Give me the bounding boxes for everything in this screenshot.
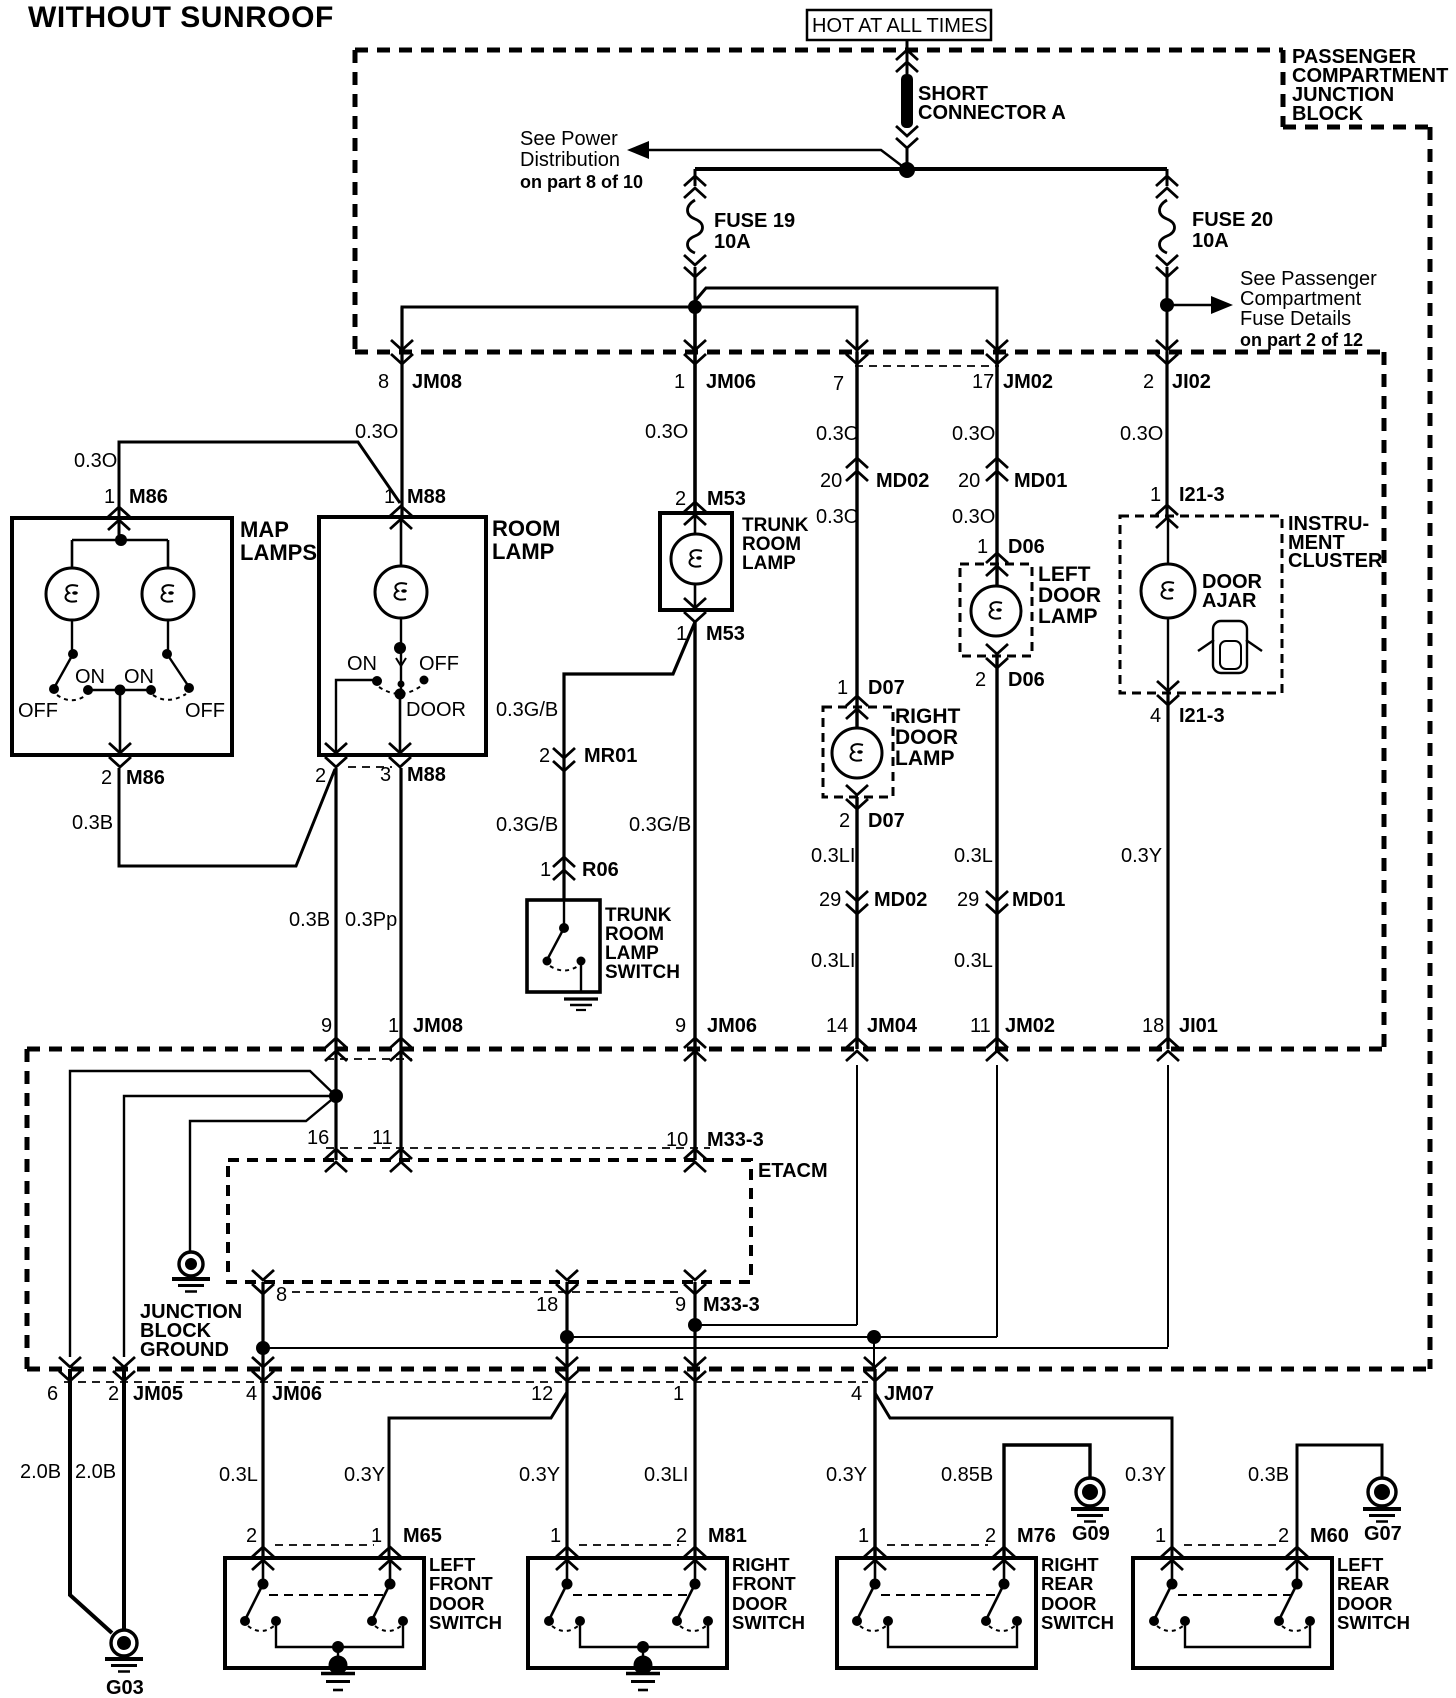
label RIGHT FRONT DOOR SWITCH <box>732 1554 805 1633</box>
rail ground stem <box>626 1641 660 1690</box>
wire node to JM05 pin 2 <box>124 1096 336 1357</box>
svg-text:DOOR: DOOR <box>1041 1593 1097 1614</box>
ground G09 <box>1071 1478 1110 1545</box>
svg-text:LEFT: LEFT <box>1038 563 1091 586</box>
svg-text:REAR: REAR <box>1337 1573 1389 1594</box>
svg-text:0.3B: 0.3B <box>72 812 113 834</box>
svg-text:ON: ON <box>124 666 154 688</box>
connector R06 pin 1 <box>540 857 619 881</box>
svg-text:MD02: MD02 <box>874 889 927 911</box>
connector I21-3 pin 4 <box>1150 681 1225 727</box>
svg-text:M88: M88 <box>407 764 446 786</box>
svg-text:LAMP: LAMP <box>895 747 955 770</box>
map lamp right switch <box>146 620 194 700</box>
svg-text:10A: 10A <box>714 231 751 253</box>
svg-text:12: 12 <box>531 1383 553 1405</box>
svg-text:2: 2 <box>975 669 986 691</box>
wire fuse 20 output to node <box>1166 267 1169 305</box>
svg-text:on part 8 of 10: on part 8 of 10 <box>520 172 643 192</box>
svg-text:1: 1 <box>540 859 551 881</box>
svg-text:Fuse Details: Fuse Details <box>1240 308 1351 330</box>
svg-text:1: 1 <box>371 1525 382 1547</box>
wire D07 pin2 to MD02 29 <box>855 797 858 1049</box>
svg-text:1: 1 <box>388 1015 399 1037</box>
junction node below fuse 19 <box>688 300 702 314</box>
map lamp bulb right <box>142 568 194 620</box>
svg-text:DOOR: DOOR <box>406 699 466 721</box>
svg-text:9: 9 <box>321 1015 332 1037</box>
svg-text:0.3Y: 0.3Y <box>519 1464 560 1486</box>
connector pin 1 junction block bottom <box>673 1357 706 1405</box>
svg-text:JM04: JM04 <box>867 1015 918 1037</box>
svg-text:2: 2 <box>315 765 326 787</box>
wire right rear door switch pin 2 to ground G09 <box>1004 1445 1090 1558</box>
wire pin9 node to JM04 pin 14 <box>695 1324 857 1326</box>
svg-text:20: 20 <box>958 470 980 492</box>
svg-text:RIGHT: RIGHT <box>1041 1554 1099 1575</box>
connector JM08 pin 8 <box>378 340 462 393</box>
svg-text:Distribution: Distribution <box>520 149 620 171</box>
mechanical link dashes <box>1178 1594 1291 1596</box>
wire pin8 node to JI01 <box>263 1347 1168 1349</box>
svg-text:D06: D06 <box>1008 536 1045 558</box>
svg-text:D07: D07 <box>868 810 905 832</box>
wire node to connector JM08 pin 8 <box>402 307 695 517</box>
svg-text:0.3LI: 0.3LI <box>811 845 855 867</box>
wire branch to MAP LAMPS connector M86 pin 1 <box>119 442 400 540</box>
switch unit right <box>672 1558 713 1631</box>
wire connector 12 to right front door switch pin 1 <box>566 1369 569 1558</box>
connector M86 pin 2 <box>101 743 165 789</box>
svg-text:0.85B: 0.85B <box>941 1464 993 1486</box>
svg-text:0.3Y: 0.3Y <box>826 1464 867 1486</box>
svg-text:1: 1 <box>384 486 395 508</box>
wire JM07 pin 4 from node <box>873 1337 875 1369</box>
connector housing dashes <box>1184 1544 1281 1546</box>
junction node map lamps output <box>115 685 126 696</box>
svg-text:2: 2 <box>539 745 550 767</box>
connector housing dashes M33-3 top <box>326 1147 710 1149</box>
TRUNK ROOM LAMP SWITCH box <box>527 900 600 992</box>
label PASSENGER COMPARTMENT JUNCTION BLOCK <box>1292 46 1448 125</box>
label MAP LAMPS <box>240 517 317 565</box>
wire node to JM05 pin 6 <box>70 1071 336 1357</box>
svg-text:JI02: JI02 <box>1172 371 1211 393</box>
wire JI01 pin 18 link down <box>1167 1065 1169 1347</box>
svg-text:ON: ON <box>347 653 377 675</box>
svg-text:JM02: JM02 <box>1005 1015 1055 1037</box>
connector pin 6 junction block bottom <box>47 1357 81 1405</box>
wire main bus from short connector A to fuses <box>695 167 1167 171</box>
wire ETACM pin 9 down to connector 1 <box>693 1282 696 1558</box>
connector JM06 pin 9 into junction block <box>675 1015 757 1061</box>
svg-text:1: 1 <box>1150 484 1161 506</box>
svg-text:2: 2 <box>1278 1525 1289 1547</box>
connector M60 pin 2 <box>1278 1525 1349 1570</box>
svg-text:MAP: MAP <box>240 517 289 542</box>
svg-text:1: 1 <box>673 1383 684 1405</box>
svg-text:REAR: REAR <box>1041 1573 1093 1594</box>
svg-text:M60: M60 <box>1310 1525 1349 1547</box>
wire fuse 20 feed <box>1166 169 1169 186</box>
label HOT AT ALL TIMES <box>807 10 991 40</box>
svg-text:2: 2 <box>246 1525 257 1547</box>
svg-text:4: 4 <box>851 1383 862 1405</box>
svg-text:8: 8 <box>378 371 389 393</box>
ETACM pin 18 <box>536 1270 578 1316</box>
svg-text:DOOR: DOOR <box>732 1593 788 1614</box>
switch unit left <box>240 1558 281 1631</box>
connector D06 pin 2 <box>975 644 1045 691</box>
wire room pin 2 down to junction block pin 9 <box>334 768 337 1160</box>
connector JM08 pin 9 into junction block <box>321 1015 347 1061</box>
wire fuse 20 node to connector JI02 pin 2 <box>1166 305 1169 352</box>
connector M86 pin 1 <box>104 486 168 530</box>
svg-text:WITHOUT SUNROOF: WITHOUT SUNROOF <box>28 1 334 34</box>
connector housing dashes <box>887 1544 988 1546</box>
door ajar lamp bulb <box>1167 516 1169 693</box>
svg-text:1: 1 <box>837 677 848 699</box>
svg-text:1: 1 <box>858 1525 869 1547</box>
svg-text:4: 4 <box>1150 705 1161 727</box>
map lamp left switch <box>49 620 93 700</box>
wire pin18 node to JM02 pin 11 <box>567 1336 997 1338</box>
connector housing dashes junction block bottom <box>64 1381 868 1383</box>
svg-text:LAMPS: LAMPS <box>240 540 317 565</box>
label RIGHT REAR DOOR SWITCH <box>1041 1554 1114 1633</box>
LEFT DOOR LAMP dashed box <box>960 564 1032 656</box>
svg-text:JM08: JM08 <box>412 371 462 393</box>
svg-text:FUSE 19: FUSE 19 <box>714 210 795 232</box>
connector JI01 pin 18 into junction block <box>1142 1015 1218 1061</box>
svg-text:10A: 10A <box>1192 230 1229 252</box>
svg-text:11: 11 <box>970 1015 991 1037</box>
svg-text:0.3Y: 0.3Y <box>344 1464 385 1486</box>
label LEFT DOOR LAMP <box>1038 563 1101 628</box>
label FUSE 19 10A <box>714 210 795 253</box>
svg-text:2.0B: 2.0B <box>75 1461 116 1483</box>
svg-text:MD01: MD01 <box>1012 889 1065 911</box>
TRUNK ROOM LAMP box <box>660 513 732 610</box>
svg-text:11: 11 <box>372 1127 393 1149</box>
label TRUNK ROOM LAMP SWITCH <box>605 905 680 983</box>
connector JM02 pin 17 <box>972 340 1053 393</box>
svg-text:M53: M53 <box>707 488 746 510</box>
svg-text:ROOM: ROOM <box>605 924 664 945</box>
svg-text:4: 4 <box>246 1383 257 1405</box>
svg-text:0.3Pp: 0.3Pp <box>345 909 397 931</box>
svg-text:1: 1 <box>674 371 685 393</box>
wire pin7 to MD02 20 <box>855 352 858 727</box>
svg-text:M88: M88 <box>407 486 446 508</box>
ETACM dashed box <box>228 1160 751 1282</box>
svg-text:JM08: JM08 <box>413 1015 463 1037</box>
svg-text:OFF: OFF <box>419 653 459 675</box>
label FUSE 20 10A <box>1192 209 1273 252</box>
svg-text:JM07: JM07 <box>884 1383 934 1405</box>
svg-text:1: 1 <box>977 536 988 558</box>
svg-text:GROUND: GROUND <box>140 1339 229 1361</box>
svg-text:7: 7 <box>833 373 844 395</box>
svg-text:0.3O: 0.3O <box>952 506 995 528</box>
wire JM06 pin 1 to trunk room lamp M53 pin 2 <box>693 352 697 513</box>
junction node at short connector A <box>899 162 915 178</box>
connector MD02 pin 29 <box>819 889 927 914</box>
svg-text:M53: M53 <box>706 623 745 645</box>
svg-text:D07: D07 <box>868 677 905 699</box>
switch unit right <box>367 1558 408 1631</box>
svg-text:OFF: OFF <box>18 700 58 722</box>
svg-text:0.3O: 0.3O <box>816 423 859 445</box>
svg-text:0.3G/B: 0.3G/B <box>496 699 558 721</box>
svg-text:0.3LI: 0.3LI <box>644 1464 688 1486</box>
svg-text:I21-3: I21-3 <box>1179 705 1225 727</box>
svg-text:JM06: JM06 <box>706 371 756 393</box>
ETACM pin 9 M33-3 <box>675 1270 760 1316</box>
wire left rear door switch pin 2 to ground G07 <box>1297 1445 1382 1558</box>
svg-text:0.3L: 0.3L <box>954 950 993 972</box>
label TRUNK ROOM LAMP <box>742 515 809 574</box>
connector MR01 pin 2 <box>539 745 637 771</box>
wire JM05 pin 2 to ground G03 <box>122 1369 126 1630</box>
wire ETACM pin 18 down to connector 12 <box>565 1282 568 1558</box>
trunk room lamp bulb <box>694 513 697 610</box>
svg-text:2: 2 <box>985 1525 996 1547</box>
common rail wire <box>580 1622 708 1647</box>
connector housing dashes <box>579 1544 679 1546</box>
svg-text:TRUNK: TRUNK <box>605 905 672 926</box>
connector I21-3 pin 1 <box>1150 484 1225 528</box>
ROOM LAMP box <box>319 517 486 755</box>
map lamps output wire <box>88 690 151 755</box>
connector JM02 pin 11 into junction block <box>970 1015 1055 1061</box>
connector M76 pin 2 <box>985 1525 1056 1570</box>
svg-text:LAMP: LAMP <box>742 553 796 574</box>
connector JM04 pin 14 into junction block <box>826 1015 918 1061</box>
svg-text:MD01: MD01 <box>1014 470 1067 492</box>
connector D07 pin 1 <box>837 677 905 719</box>
svg-text:SWITCH: SWITCH <box>732 1612 805 1633</box>
ETACM connector M33-3 pin 11 <box>372 1127 412 1172</box>
RIGHT DOOR LAMP dashed box <box>823 707 893 797</box>
wire node to connector JM06 pin 1 <box>693 307 697 352</box>
svg-text:CLUSTER: CLUSTER <box>1288 550 1383 572</box>
svg-text:JM06: JM06 <box>272 1383 322 1405</box>
common rail wire <box>1185 1622 1310 1647</box>
svg-text:Compartment: Compartment <box>1240 288 1362 310</box>
svg-text:16: 16 <box>307 1127 329 1149</box>
svg-text:CONNECTOR A: CONNECTOR A <box>918 102 1066 124</box>
ETACM connector M33-3 pin 16 <box>307 1127 347 1172</box>
svg-text:20: 20 <box>820 470 842 492</box>
wire room pin 3 down to junction block JM08 pin 1 <box>399 768 402 1160</box>
switch unit right <box>1274 1558 1315 1631</box>
label SHORT CONNECTOR A <box>918 83 1066 124</box>
svg-text:DOOR: DOOR <box>895 726 958 749</box>
svg-text:R06: R06 <box>582 859 619 881</box>
room lamp ON-contact wire to pin 2 <box>336 680 377 755</box>
svg-text:DOOR: DOOR <box>1038 584 1101 607</box>
label See Passenger Compartment Fuse Details on part 2 of 12 <box>1240 268 1377 350</box>
wire JM07 branch to left rear door switch pin 1 <box>875 1393 1172 1558</box>
connector housing dashes <box>275 1544 374 1546</box>
svg-text:0.3L: 0.3L <box>219 1464 258 1486</box>
LEFT REAR DOOR SWITCH box <box>1133 1558 1332 1668</box>
svg-text:JI01: JI01 <box>1179 1015 1218 1037</box>
svg-text:TRUNK: TRUNK <box>742 515 809 536</box>
trunk room lamp switch contacts <box>543 900 586 992</box>
ground G07 <box>1363 1478 1402 1545</box>
svg-text:RIGHT: RIGHT <box>895 705 961 728</box>
label JUNCTION BLOCK GROUND <box>140 1301 242 1361</box>
wire ETACM pin 8 down to JM06 pin 4 <box>261 1282 264 1558</box>
connector housing dashes M33-3 bottom <box>292 1291 683 1293</box>
svg-text:DOOR: DOOR <box>429 1593 485 1614</box>
svg-text:RIGHT: RIGHT <box>732 1554 790 1575</box>
svg-text:6: 6 <box>47 1383 58 1405</box>
svg-text:1: 1 <box>1155 1525 1166 1547</box>
svg-text:G03: G03 <box>106 1677 144 1698</box>
junction node JM07 feed <box>867 1330 881 1344</box>
connector pin 12 junction block bottom <box>531 1357 578 1405</box>
connector D06 pin 1 <box>977 536 1045 576</box>
wire node to connector pin 7 <box>695 307 857 352</box>
junction node ETACM pin 8 <box>256 1341 270 1355</box>
connector M81 pin 1 (right front switch) <box>550 1525 578 1570</box>
wire D06 pin2 to MD01 29 <box>995 656 998 1049</box>
connector JM07 pin 4 junction block bottom <box>851 1357 934 1405</box>
switch unit left <box>544 1558 585 1631</box>
svg-text:0.3O: 0.3O <box>816 506 859 528</box>
junction node ETACM pin 18 <box>560 1330 574 1344</box>
svg-text:FRONT: FRONT <box>732 1573 796 1594</box>
connector MD01 pin 29 <box>957 889 1065 914</box>
svg-text:2: 2 <box>108 1383 119 1405</box>
svg-text:SWITCH: SWITCH <box>1337 1612 1410 1633</box>
connector housing dashes JM08 pins 9-1 <box>326 1058 412 1060</box>
short connector A symbol <box>896 50 918 170</box>
wire fuse 19 feed <box>694 169 697 186</box>
svg-text:LEFT: LEFT <box>429 1554 476 1575</box>
RIGHT FRONT DOOR SWITCH box <box>528 1558 727 1668</box>
room lamp bulb <box>400 517 403 566</box>
mechanical link dashes <box>573 1594 689 1596</box>
switch unit right <box>981 1558 1022 1631</box>
svg-text:ON: ON <box>75 666 105 688</box>
svg-text:BLOCK: BLOCK <box>1292 103 1364 125</box>
common rail wire <box>888 1622 1017 1647</box>
wire connector 12 to left front door switch pin 1 M65 <box>389 1392 567 1558</box>
junction node ETACM pin 9 <box>688 1318 702 1332</box>
connector M53 pin 1 <box>676 598 745 645</box>
svg-text:M81: M81 <box>708 1525 747 1547</box>
svg-text:M76: M76 <box>1017 1525 1056 1547</box>
wire see-passenger-fuse-details branch <box>1167 296 1233 314</box>
connector JM06 pin 4 junction block bottom <box>246 1357 322 1405</box>
svg-text:2: 2 <box>1143 371 1154 393</box>
switch unit left <box>852 1558 893 1631</box>
connector JM02 pin 7 <box>833 340 868 395</box>
svg-text:See Power: See Power <box>520 128 618 150</box>
svg-text:LAMP: LAMP <box>492 539 554 564</box>
left door lamp bulb <box>971 586 1021 636</box>
fuse F20 <box>1156 176 1178 186</box>
svg-text:AJAR: AJAR <box>1202 590 1257 612</box>
wire I21-3 pin 4 to JI01 pin 18 <box>1166 693 1169 1049</box>
wire JM02 pin 11 link down <box>996 1065 998 1337</box>
svg-text:MD02: MD02 <box>876 470 929 492</box>
svg-text:D06: D06 <box>1008 669 1045 691</box>
ground G03 <box>105 1630 144 1698</box>
svg-text:0.3LI: 0.3LI <box>811 950 855 972</box>
svg-text:2.0B: 2.0B <box>20 1461 61 1483</box>
wire see-power-distribution branch <box>627 141 906 169</box>
svg-text:0.3B: 0.3B <box>289 909 330 931</box>
svg-text:2: 2 <box>839 810 850 832</box>
svg-text:LAMP: LAMP <box>605 943 659 964</box>
svg-text:8: 8 <box>276 1284 287 1306</box>
svg-text:LAMP: LAMP <box>1038 605 1098 628</box>
door ajar car icon <box>1198 621 1262 673</box>
wire JM07 pin 4 to right rear door switch pin 1 <box>873 1369 876 1558</box>
connector JI02 pin 2 <box>1143 340 1211 393</box>
svg-text:ROOM: ROOM <box>492 516 560 541</box>
label INSTRUMENT CLUSTER <box>1288 513 1383 572</box>
wire JM04 pin 14 link down <box>856 1065 858 1325</box>
common rail wire <box>276 1622 403 1647</box>
svg-text:DOOR: DOOR <box>1337 1593 1393 1614</box>
connector housing dashes M88 pins 2-3 <box>348 766 392 768</box>
svg-text:JM06: JM06 <box>707 1015 757 1037</box>
label ROOM LAMP <box>492 516 560 564</box>
label See Power Distribution on part 8 of 10 <box>520 128 643 192</box>
svg-text:See Passenger: See Passenger <box>1240 268 1377 290</box>
fuse F19 <box>684 176 706 186</box>
svg-text:M33-3: M33-3 <box>707 1129 764 1151</box>
svg-text:FRONT: FRONT <box>429 1573 493 1594</box>
map lamps internal feed wires <box>72 518 168 568</box>
right door lamp bulb <box>832 728 882 778</box>
svg-text:0.3O: 0.3O <box>355 421 398 443</box>
connector M88 pin 2 <box>315 743 347 787</box>
svg-text:0.3Y: 0.3Y <box>1125 1464 1166 1486</box>
connector MD02 pin 20 <box>820 458 929 492</box>
svg-text:SWITCH: SWITCH <box>1041 1612 1114 1633</box>
svg-text:G09: G09 <box>1072 1523 1110 1545</box>
label LEFT FRONT DOOR SWITCH <box>429 1554 502 1633</box>
svg-text:JM02: JM02 <box>1003 371 1053 393</box>
ETACM pin 8 <box>252 1270 287 1306</box>
svg-text:1: 1 <box>550 1525 561 1547</box>
wire connector 1 to right front door switch pin 2 M81 <box>694 1369 697 1558</box>
svg-text:0.3O: 0.3O <box>1120 423 1163 445</box>
LEFT FRONT DOOR SWITCH box <box>225 1558 424 1668</box>
connector JM08 pin 1 into junction block <box>388 1015 463 1061</box>
wire from HOT AT ALL TIMES into junction block <box>906 40 909 74</box>
svg-text:JM05: JM05 <box>133 1383 183 1405</box>
connector M65 pin 2 (left front switch) <box>246 1525 274 1570</box>
svg-text:0.3B: 0.3B <box>1248 1464 1289 1486</box>
svg-text:9: 9 <box>675 1015 686 1037</box>
wire fuse 19 output to node <box>694 267 697 307</box>
svg-text:2: 2 <box>101 767 112 789</box>
svg-text:29: 29 <box>819 889 841 911</box>
wire node to connector JM02 pin 17 <box>695 288 997 352</box>
junction node lamp feed bus <box>329 1089 343 1103</box>
INSTRUMENT CLUSTER dashed box <box>1120 516 1282 693</box>
svg-text:M65: M65 <box>403 1525 442 1547</box>
svg-text:1: 1 <box>104 486 115 508</box>
